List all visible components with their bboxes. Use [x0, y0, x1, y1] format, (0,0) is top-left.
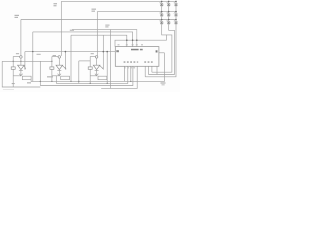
label near riser Q2 — [54, 3, 58, 4]
wire L3 — [40, 66, 133, 85]
resistor R2 box — [50, 67, 54, 69]
probe circle Q1 — [20, 56, 23, 59]
vertical V71 — [70, 35, 72, 81]
pin number text above IC — [118, 43, 120, 46]
resistor path — [12, 57, 14, 88]
LED D5 — [166, 12, 170, 17]
vertical 107 — [106, 52, 108, 84]
junction dots — [13, 1, 177, 84]
wire W2 to IC top pin 1 — [71, 35, 127, 46]
LED column 3 wire — [145, 1, 176, 76]
emitter join wire — [13, 75, 21, 77]
LED matrix symbols — [159, 2, 177, 25]
label near riser Q3 — [92, 9, 97, 10]
wire L1 — [31, 53, 164, 82]
wire row3 bus — [21, 19, 176, 21]
label box — [61, 76, 70, 80]
dots on L1 — [40, 81, 41, 82]
wire row2 bus — [97, 11, 176, 13]
wire W3 vcc row — [115, 35, 166, 47]
probe circle Q3 — [95, 56, 98, 59]
circle labels — [16, 53, 19, 54]
vertical 110 — [110, 30, 112, 89]
wire stub V78 top — [79, 60, 90, 62]
LED D3 — [174, 2, 178, 7]
LED column 1 wire — [152, 1, 172, 72]
IC bottom pin stubs — [124, 66, 126, 81]
LED D1 — [159, 2, 163, 7]
transistor triangle — [18, 65, 25, 69]
label box — [22, 76, 31, 80]
IC bottom pin numbers — [124, 61, 126, 62]
cell 2 — [50, 56, 70, 82]
wire W4 to IC top pin 3 — [72, 30, 137, 47]
wire riser Q2 — [60, 1, 62, 56]
IC bottom-right pin wires — [151, 66, 153, 72]
transistor triangle — [93, 65, 100, 69]
wire riser Q1 — [20, 20, 22, 56]
title text bottom — [12, 83, 15, 84]
emitter diagonal Q3 — [100, 65, 104, 69]
diode bar Q2 — [57, 69, 61, 71]
wire W5 to IC top pin 2 — [33, 32, 133, 47]
vertical V78 — [78, 61, 80, 84]
emitter diagonal Q2 — [62, 65, 66, 69]
dots on left-pin wire — [32, 51, 33, 52]
IC right pin stub — [159, 52, 165, 54]
diode bar Q3 — [95, 69, 99, 71]
LED column 2 wire — [149, 1, 175, 74]
dots on W3 — [126, 39, 128, 41]
label box — [98, 76, 107, 80]
riser to circle — [20, 55, 22, 57]
diode bar Q1 — [19, 69, 23, 71]
wire L2 — [89, 57, 91, 84]
left return wire — [2, 61, 40, 87]
label on W5 — [70, 30, 74, 31]
LED D9 — [174, 20, 178, 25]
label near riser Q1 — [15, 15, 20, 16]
vertical V40 — [39, 61, 41, 85]
tiny text marks — [12, 3, 166, 85]
vertical V33 — [32, 32, 34, 82]
dots on bus — [13, 61, 14, 62]
cell 1 — [11, 56, 31, 87]
cell 3 — [88, 56, 107, 80]
LED D7 — [159, 20, 163, 25]
left pins wire of IC — [25, 51, 115, 53]
base drop cell3 — [102, 35, 104, 69]
bus left rail — [2, 60, 52, 62]
wire into circle — [13, 56, 20, 58]
IC U1 body — [115, 47, 159, 67]
emitter line — [20, 70, 22, 76]
base drop cell2 — [64, 52, 66, 70]
LED D2 — [166, 2, 170, 7]
wire riser Q3 — [96, 12, 98, 56]
LED D6 — [174, 12, 178, 17]
probe circle Q2 — [58, 56, 61, 59]
resistor R3 box — [88, 67, 92, 69]
emitter arrow — [19, 74, 22, 76]
LED D8 — [166, 20, 170, 25]
emitter diagonal Q1 — [24, 65, 26, 69]
IC internal text — [131, 49, 139, 51]
LED D4 — [159, 12, 163, 17]
transistor triangle — [56, 65, 63, 69]
wire L4 — [101, 66, 137, 88]
wire row1 top bus — [61, 0, 176, 2]
net label near 110 — [105, 25, 109, 26]
faint frame line — [3, 88, 14, 90]
transistor vertical — [20, 58, 22, 65]
resistor R1 box — [11, 67, 15, 69]
base drop cell1 — [24, 52, 26, 70]
pin text below IC — [124, 66, 126, 69]
